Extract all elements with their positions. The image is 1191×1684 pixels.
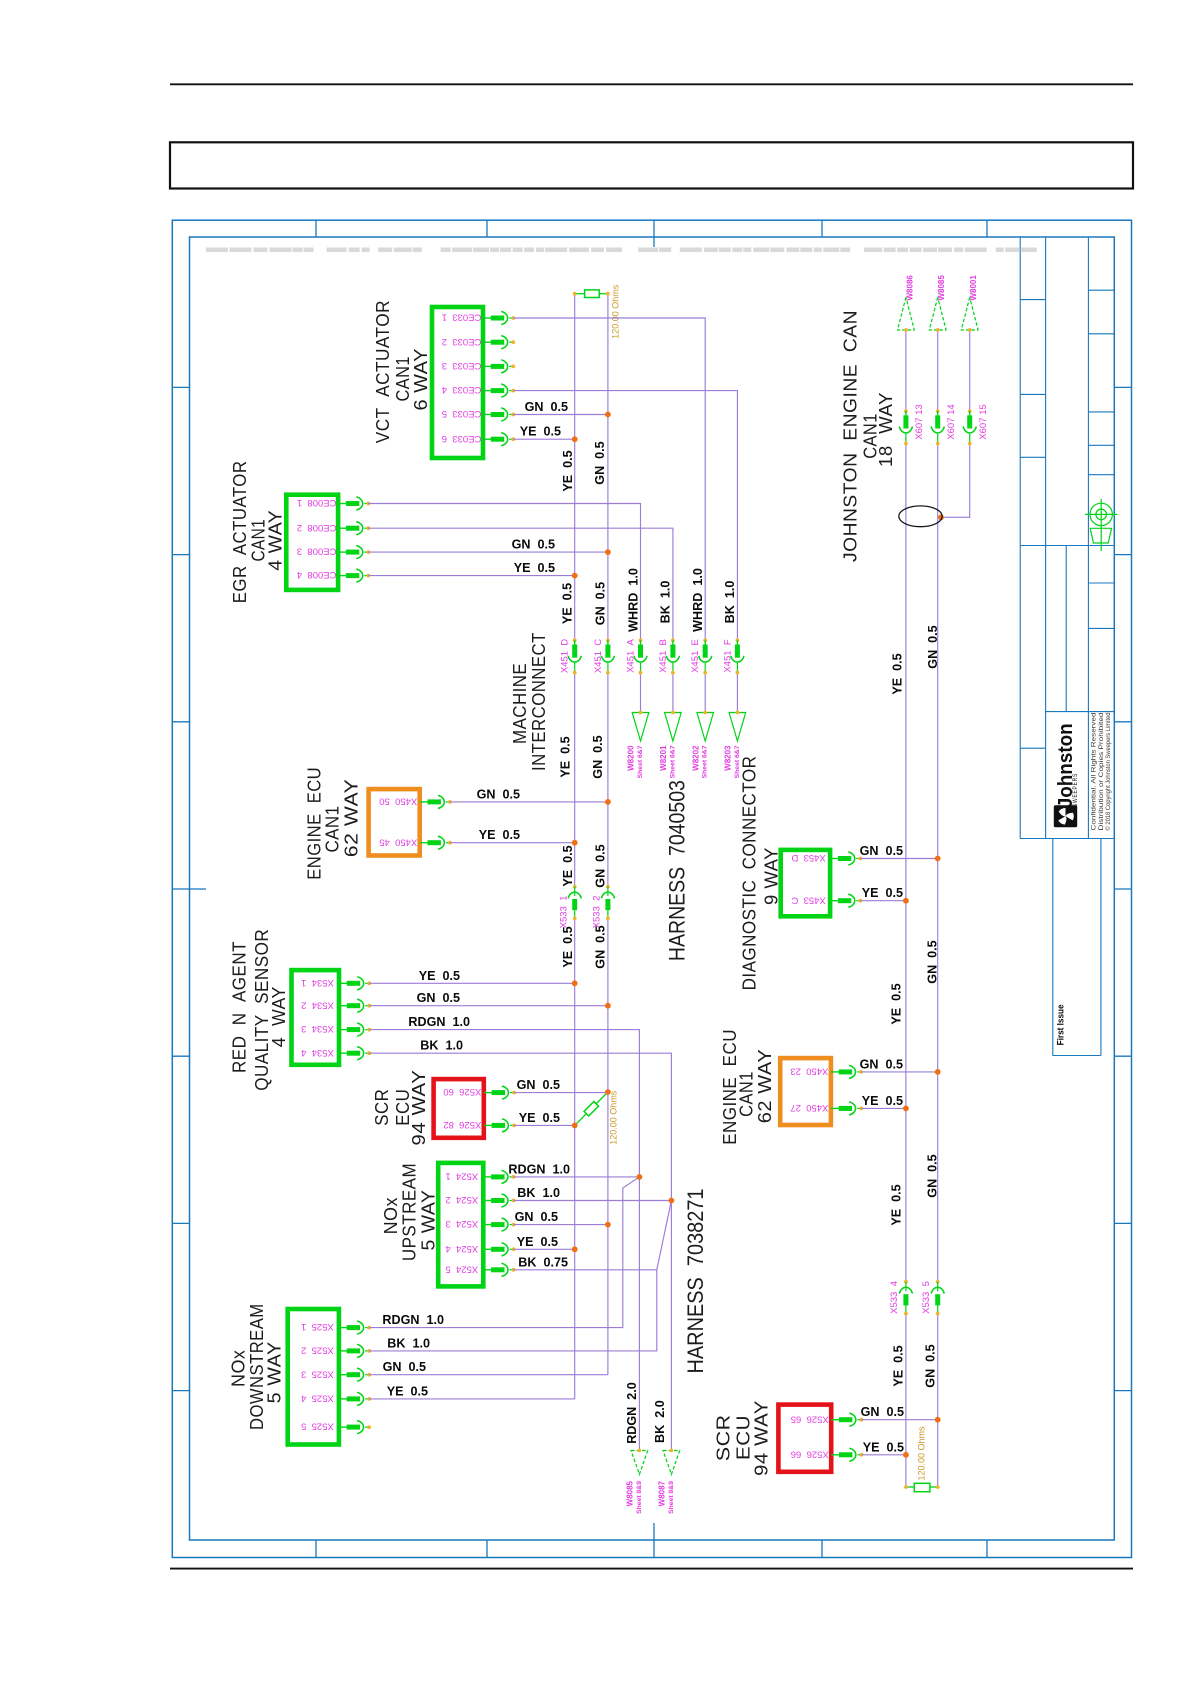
svg-text:X607 14: X607 14 (946, 404, 957, 439)
svg-text:94 WAY: 94 WAY (750, 1400, 771, 1476)
svg-text:W8087: W8087 (658, 1480, 667, 1506)
wire GN bus right (937, 330, 939, 411)
node YE bottom resistor (904, 1485, 908, 1489)
wire X451 B to W8201 (672, 673, 674, 712)
connector X525 NOx DOWNSTREAM box (288, 1309, 339, 1445)
svg-text:X451 D: X451 D (560, 639, 571, 673)
resistor R-term bottom 120.00 Ohms (906, 1483, 938, 1491)
svg-text:GN 0.5: GN 0.5 (593, 925, 607, 968)
off-page arrow W8085 bottom (631, 1451, 648, 1475)
svg-text:GN 0.5: GN 0.5 (926, 625, 940, 668)
wire CE008-1 to X451 A (368, 504, 640, 641)
wire GN 0.5 X453-D to GN bus (860, 858, 937, 860)
svg-text:GN 0.5: GN 0.5 (923, 1344, 937, 1387)
node YE/X450-45 (572, 840, 578, 846)
svg-text:X524 3: X524 3 (445, 1218, 478, 1229)
svg-text:YE 0.5: YE 0.5 (889, 1184, 903, 1225)
svg-text:X533 4: X533 4 (889, 1281, 900, 1314)
ghost text band (206, 248, 1037, 253)
connector X607 13 (899, 409, 912, 445)
Johnston logo (1054, 805, 1077, 827)
svg-text:SWEEPERS: SWEEPERS (1072, 773, 1079, 807)
wire YE 0.5 X526-82 to YE bus (514, 1124, 575, 1126)
svg-text:YE 0.5: YE 0.5 (561, 926, 575, 967)
svg-text:18 WAY: 18 WAY (875, 392, 896, 467)
connector X451 C (601, 638, 614, 674)
wire YE 0.5 CE008-4 to YE bus (368, 575, 574, 577)
svg-text:GN 0.5: GN 0.5 (525, 400, 568, 414)
svg-text:HARNESS 7040503: HARNESS 7040503 (665, 780, 690, 961)
svg-text:Sheet 8&9: Sheet 8&9 (668, 1481, 675, 1514)
wire YE 0.5 CE033-6 to YE bus (513, 438, 575, 440)
node YE/X524-4 (572, 1246, 578, 1252)
wire YE bus left (CAN low) (574, 294, 576, 641)
node BK junction (669, 1198, 675, 1204)
title block grid (1020, 237, 1114, 1056)
svg-text:4 WAY: 4 WAY (265, 510, 286, 571)
wire X451 A to W8200 (640, 673, 642, 712)
wire CE008-2 to X451 B (368, 528, 673, 640)
svg-text:BK 1.0: BK 1.0 (723, 581, 737, 624)
svg-text:Sheet 6&7: Sheet 6&7 (669, 745, 676, 778)
svg-text:YE 0.5: YE 0.5 (387, 1384, 428, 1398)
svg-text:YE 0.5: YE 0.5 (561, 583, 575, 624)
svg-text:RDGN 1.0: RDGN 1.0 (408, 1015, 470, 1029)
svg-text:X450 50: X450 50 (379, 796, 417, 807)
svg-text:GN 0.5: GN 0.5 (593, 844, 607, 887)
svg-text:GN 0.5: GN 0.5 (861, 1405, 904, 1419)
node YE/CE008-4 (572, 573, 578, 579)
svg-text:GN 0.5: GN 0.5 (593, 441, 607, 484)
svg-text:4 WAY: 4 WAY (268, 986, 289, 1047)
svg-text:CE008 2: CE008 2 (297, 522, 337, 533)
wire GN 0.5 X534-2 to GN bus (369, 1005, 608, 1007)
svg-text:UPSTREAM: UPSTREAM (399, 1163, 420, 1261)
svg-text:W8203: W8203 (724, 745, 733, 771)
off-page arrow W8201 (665, 713, 682, 742)
svg-text:WHRD 1.0: WHRD 1.0 (691, 568, 705, 632)
wire GN 0.5 X450-23 to GN bus (861, 1071, 938, 1073)
svg-text:9 WAY: 9 WAY (761, 847, 782, 905)
off-page arrow W8202 (697, 713, 714, 742)
wire GN bus left (CAN high) (607, 294, 609, 641)
wire GN 0.5 CE033-5 to GN bus (513, 414, 608, 416)
connector X533 4 (899, 1280, 912, 1316)
svg-text:W8202: W8202 (691, 745, 700, 771)
node GN/CE008-3 (605, 549, 611, 555)
svg-text:RDGN 1.0: RDGN 1.0 (382, 1313, 444, 1327)
svg-text:W8085: W8085 (937, 275, 946, 301)
svg-text:YE 0.5: YE 0.5 (520, 425, 561, 439)
svg-text:CE033 2: CE033 2 (442, 336, 482, 347)
svg-text:W8200: W8200 (627, 745, 636, 771)
wire YE 0.5 X525-4 to YE bus (369, 1398, 575, 1400)
svg-text:GN 0.5: GN 0.5 (512, 538, 555, 552)
svg-text:YE 0.5: YE 0.5 (519, 1111, 560, 1125)
svg-text:X534 3: X534 3 (301, 1023, 334, 1034)
svg-text:GN 0.5: GN 0.5 (417, 991, 460, 1005)
connector X607 15 (963, 409, 976, 445)
node GN/X450-23 (935, 1069, 941, 1075)
svg-text:X607 15: X607 15 (978, 404, 989, 439)
node RDGN junction (637, 1174, 643, 1180)
off-page arrow W8087 (663, 1451, 680, 1475)
svg-text:GN 0.5: GN 0.5 (860, 1057, 903, 1071)
wire BK 2.0 junction to W8087 (670, 1201, 672, 1451)
connector X526 SCR ECU box (left) (434, 1079, 484, 1138)
svg-text:W8085: W8085 (626, 1480, 635, 1506)
connector X451 D (568, 638, 581, 674)
svg-text:HARNESS 7038271: HARNESS 7038271 (683, 1189, 708, 1374)
svg-text:W8086: W8086 (905, 275, 914, 301)
svg-text:X607 13: X607 13 (914, 404, 925, 439)
connector X450 ENGINE ECU box (left) (369, 789, 420, 855)
svg-text:BK 1.0: BK 1.0 (420, 1039, 463, 1053)
svg-text:YE 0.5: YE 0.5 (514, 561, 555, 575)
svg-text:RDGN 2.0: RDGN 2.0 (625, 1382, 639, 1444)
off-page arrow W8086 (898, 297, 915, 330)
wire screen X607 15 drop (969, 330, 971, 411)
svg-text:VCT ACTUATOR: VCT ACTUATOR (372, 300, 393, 443)
connector X451 A (634, 638, 647, 674)
outer border frame (172, 220, 1131, 1557)
svg-text:BK 1.0: BK 1.0 (387, 1336, 430, 1350)
connector X533 5 (931, 1280, 944, 1316)
svg-text:CE008 4: CE008 4 (297, 569, 337, 580)
svg-text:CE033 5: CE033 5 (442, 408, 482, 419)
node GN/CE033-5 (605, 412, 611, 418)
resistor 120.00 Ohms diagonal (SCR ECU) (575, 1092, 608, 1125)
svg-text:X525 1: X525 1 (301, 1321, 334, 1332)
svg-text:X534 2: X534 2 (301, 999, 334, 1010)
svg-text:YE 0.5: YE 0.5 (517, 1235, 558, 1249)
node GN/X526-60 (605, 1089, 611, 1095)
svg-text:JOHNSTON ENGINE CAN: JOHNSTON ENGINE CAN (840, 310, 861, 562)
wire gauge labels horizontal (382, 400, 904, 1454)
svg-text:YE 0.5: YE 0.5 (479, 828, 520, 842)
top rule (170, 83, 1133, 85)
wire GN 0.5 X526-60 to GN bus (514, 1092, 608, 1094)
svg-text:X526 82: X526 82 (443, 1119, 481, 1130)
svg-text:X451 B: X451 B (658, 639, 669, 673)
svg-text:X533 2: X533 2 (592, 896, 603, 929)
wire RDGN 2.0 junction to W8085 (638, 1177, 640, 1451)
wire BK 0.75 X524-5 diagonal (514, 1201, 672, 1270)
svg-text:X524 1: X524 1 (445, 1171, 478, 1182)
connector X607 14 (931, 409, 944, 445)
svg-text:GN 0.5: GN 0.5 (925, 940, 939, 983)
node GN bottom resistor (936, 1485, 940, 1489)
svg-text:WHRD 1.0: WHRD 1.0 (626, 568, 640, 632)
wire CE033-1 to X451 E (513, 318, 705, 640)
wire YE 0.5 X453-C to YE bus (860, 900, 906, 902)
wire X451 E to W8202 (704, 673, 706, 712)
svg-text:MACHINE: MACHINE (509, 663, 530, 744)
svg-text:X526 65: X526 65 (791, 1413, 829, 1424)
svg-text:GN 0.5: GN 0.5 (515, 1210, 558, 1224)
wire BK 1.0 X524-2 (514, 1200, 672, 1202)
svg-text:GN 0.5: GN 0.5 (383, 1360, 426, 1374)
node GN/X453-D (935, 856, 941, 862)
svg-text:X451 A: X451 A (626, 638, 637, 672)
svg-text:YE 0.5: YE 0.5 (558, 736, 572, 777)
node YE/X534-1 (572, 980, 578, 986)
svg-text:BK 1.0: BK 1.0 (517, 1186, 560, 1200)
connector X526 SCR ECU box (right) (778, 1405, 831, 1472)
svg-text:62 WAY: 62 WAY (754, 1049, 775, 1124)
svg-text:Sheet 8&9: Sheet 8&9 (636, 1481, 643, 1514)
svg-text:RDGN 1.0: RDGN 1.0 (508, 1162, 570, 1176)
svg-text:YE 0.5: YE 0.5 (891, 1345, 905, 1386)
wire YE 0.5 X524-4 to YE bus (514, 1248, 575, 1250)
svg-text:X525 5: X525 5 (301, 1421, 334, 1432)
svg-text:YE 0.5: YE 0.5 (561, 845, 575, 886)
svg-text:X525 2: X525 2 (301, 1345, 334, 1356)
svg-text:YE 0.5: YE 0.5 (862, 1094, 903, 1108)
svg-text:GN 0.5: GN 0.5 (594, 582, 608, 625)
svg-text:CE008 3: CE008 3 (297, 546, 337, 557)
wire YE 0.5 X526-66 to YE bus (861, 1454, 906, 1456)
wire GN 0.5 X525-3 to GN bus (369, 1374, 608, 1376)
svg-text:INTERCONNECT: INTERCONNECT (528, 632, 549, 771)
svg-text:120.00 Ohms: 120.00 Ohms (611, 284, 621, 339)
border edge ticks (172, 220, 1131, 1557)
svg-text:120.00 Ohms: 120.00 Ohms (608, 1090, 618, 1145)
svg-text:CE033 1: CE033 1 (442, 312, 482, 323)
wire YE 0.5 X534-1 to YE bus (369, 982, 575, 984)
svg-text:GN 0.5: GN 0.5 (925, 1154, 939, 1197)
node YE/X453-C (903, 898, 909, 904)
svg-text:94 WAY: 94 WAY (408, 1070, 429, 1146)
wire gauge labels vertical (558, 441, 940, 1444)
wire CE033-4 to X451 F (513, 391, 737, 641)
svg-text:X451 C: X451 C (593, 639, 604, 673)
svg-text:X525 4: X525 4 (301, 1393, 334, 1404)
svg-text:YE 0.5: YE 0.5 (419, 969, 460, 983)
twisted pair ellipse (899, 506, 942, 527)
svg-text:First Issue: First Issue (1056, 1004, 1067, 1045)
node YE/X450-27 (903, 1106, 909, 1112)
svg-text:CE008 1: CE008 1 (297, 497, 337, 508)
bottom rule (170, 1568, 1133, 1570)
off-page arrow W8203 (729, 713, 746, 742)
svg-text:X534 4: X534 4 (301, 1047, 334, 1058)
node GN/X534-2 (605, 1003, 611, 1009)
svg-text:X533 1: X533 1 (558, 896, 569, 929)
svg-text:Distribution or Copies Prohibi: Distribution or Copies Prohibited (1098, 713, 1105, 831)
node YE/X526-66 (903, 1452, 909, 1458)
svg-text:X534 1: X534 1 (301, 977, 334, 988)
svg-text:5 WAY: 5 WAY (264, 1341, 285, 1403)
svg-text:YE 0.5: YE 0.5 (561, 450, 575, 491)
svg-text:Confidential. All Rights Reser: Confidential. All Rights Reserved (1091, 713, 1098, 831)
connector CE033 VCT ACTUATOR box (432, 307, 483, 458)
off-page arrow W8001 (961, 297, 978, 330)
svg-text:YE 0.5: YE 0.5 (889, 983, 903, 1024)
svg-text:GN 0.5: GN 0.5 (477, 787, 520, 801)
wire RDGN 1.0 X525-1 up (369, 1177, 639, 1328)
svg-text:CE033 3: CE033 3 (442, 360, 482, 371)
svg-text:CE033 6: CE033 6 (442, 433, 482, 444)
svg-text:X526 66: X526 66 (791, 1448, 829, 1459)
wire GN 0.5 X450-50 to GN bus (450, 801, 608, 803)
node GN top resistor (606, 292, 610, 296)
node GN/X450-50 (605, 799, 611, 805)
node YE/X526-82 (572, 1123, 578, 1129)
svg-text:GN 0.5: GN 0.5 (517, 1078, 560, 1092)
connector X524 NOx UPSTREAM box (438, 1163, 483, 1287)
svg-text:6 WAY: 6 WAY (410, 348, 431, 411)
wire GN 0.5 X526-65 to GN bus (861, 1419, 937, 1421)
svg-text:BK 2.0: BK 2.0 (653, 1400, 667, 1443)
wire RDGN 1.0 X534-3 down (369, 1030, 639, 1177)
svg-text:X525 3: X525 3 (301, 1368, 334, 1379)
svg-text:62 WAY: 62 WAY (340, 779, 361, 857)
svg-text:© 2018 Copyright Johnston Swee: © 2018 Copyright Johnston Sweepers Limit… (1105, 713, 1112, 831)
svg-text:X526 60: X526 60 (443, 1086, 481, 1097)
wire YE 0.5 X450-45 to YE bus (450, 842, 575, 844)
wire BK 1.0 X525-2 up (369, 1270, 657, 1351)
svg-text:X451 F: X451 F (722, 639, 733, 672)
svg-text:BK 1.0: BK 1.0 (659, 581, 673, 624)
node GN/X526-65 (935, 1417, 941, 1423)
svg-text:Sheet 6&7: Sheet 6&7 (734, 745, 741, 778)
first angle projection symbol (1085, 499, 1118, 551)
off-page arrow W8085 top (929, 297, 946, 330)
inner border frame (190, 237, 1115, 1540)
svg-text:X450 27: X450 27 (790, 1102, 828, 1113)
svg-text:YE 0.5: YE 0.5 (863, 1440, 904, 1454)
wire BK 1.0 X534-4 down (369, 1053, 671, 1200)
svg-text:X453 C: X453 C (791, 894, 825, 905)
svg-text:Sheet 6&7: Sheet 6&7 (637, 745, 644, 778)
wire YE bus right (905, 330, 907, 411)
svg-text:SCR: SCR (712, 1414, 733, 1461)
connector X533 2 (601, 885, 614, 921)
connector X451 B (666, 638, 679, 674)
svg-text:5 WAY: 5 WAY (418, 1190, 439, 1251)
svg-text:BK 0.75: BK 0.75 (518, 1255, 568, 1269)
svg-text:X533 5: X533 5 (921, 1281, 932, 1314)
wire YE 0.5 X450-27 to YE bus (861, 1107, 906, 1109)
svg-text:X450 45: X450 45 (379, 836, 417, 847)
svg-text:W8001: W8001 (969, 275, 978, 301)
svg-text:DIAGNOSTIC CONNECTOR: DIAGNOSTIC CONNECTOR (738, 756, 759, 991)
node screen to GN bus (938, 514, 944, 520)
svg-text:RED N AGENT: RED N AGENT (229, 941, 250, 1073)
wire RDGN 1.0 X524-1 (514, 1176, 640, 1178)
svg-text:X453 D: X453 D (791, 852, 825, 863)
svg-text:X524 5: X524 5 (445, 1263, 478, 1274)
wire GN 0.5 X524-3 to GN bus (514, 1224, 608, 1226)
svg-text:CE033 4: CE033 4 (442, 384, 482, 395)
off-page arrow W8200 (632, 713, 649, 742)
svg-text:W8201: W8201 (659, 745, 668, 771)
svg-text:X450 23: X450 23 (790, 1066, 828, 1077)
svg-text:YE 0.5: YE 0.5 (862, 886, 903, 900)
svg-text:GN 0.5: GN 0.5 (860, 844, 903, 858)
svg-text:YE 0.5: YE 0.5 (890, 653, 904, 694)
wire GN 0.5 CE008-3 to GN bus (368, 551, 608, 553)
wire X451 F to W8203 (736, 673, 738, 712)
node YE/CE033-6 (572, 436, 578, 442)
svg-text:SCR: SCR (371, 1089, 392, 1126)
svg-text:X524 4: X524 4 (445, 1243, 478, 1254)
connector CE008 EGR ACTUATOR box (286, 495, 338, 590)
svg-text:Sheet 6&7: Sheet 6&7 (702, 745, 709, 778)
svg-text:X451 E: X451 E (690, 639, 701, 673)
connector X533 1 (568, 885, 581, 921)
connector X453 DIAGNOSTIC CONNECTOR box (781, 850, 830, 916)
svg-text:120.00 Ohms: 120.00 Ohms (917, 1426, 927, 1481)
connector X451 E (699, 638, 712, 674)
node GN/X524-3 (605, 1222, 611, 1228)
svg-text:X524 2: X524 2 (445, 1194, 478, 1205)
connector X450 ENGINE ECU box (right) (780, 1058, 831, 1125)
connector X534 REDN AGENT QUALITY SENSOR box (292, 970, 340, 1065)
svg-text:GN 0.5: GN 0.5 (591, 735, 605, 778)
node YE top resistor (573, 292, 577, 296)
empty title strip (170, 142, 1133, 188)
resistor R-term top 120.00 Ohms (575, 290, 608, 298)
connector X451 F (731, 638, 744, 674)
